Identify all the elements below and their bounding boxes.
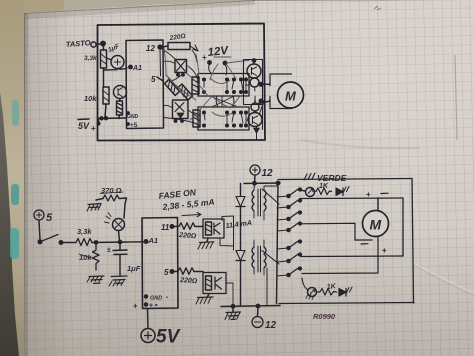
svg-text:220Ω: 220Ω — [178, 232, 197, 240]
svg-text:12: 12 — [265, 320, 277, 331]
svg-text:+: + — [202, 53, 207, 62]
svg-text:R0990: R0990 — [313, 312, 336, 321]
svg-text:GND: GND — [150, 296, 162, 302]
svg-text:+ •: + • — [149, 303, 158, 310]
svg-text:VERDE: VERDE — [317, 173, 347, 183]
svg-text:5V: 5V — [78, 121, 90, 131]
svg-text:A1: A1 — [132, 65, 142, 72]
svg-text:+: + — [91, 124, 96, 133]
svg-text:12: 12 — [262, 168, 274, 179]
svg-text:1μF: 1μF — [127, 264, 141, 273]
svg-text:5V: 5V — [156, 327, 181, 348]
svg-text:M: M — [285, 89, 297, 104]
svg-text:370 Ω: 370 Ω — [101, 186, 122, 195]
svg-text:3,3k: 3,3k — [84, 55, 97, 62]
svg-text:GND: GND — [127, 114, 139, 120]
svg-text:+5: +5 — [130, 122, 138, 129]
svg-text:+: + — [382, 246, 387, 255]
svg-text:+: + — [133, 302, 138, 311]
svg-text:±: ± — [107, 247, 111, 254]
svg-text:3,3k: 3,3k — [77, 227, 92, 236]
svg-text:5: 5 — [46, 212, 53, 224]
svg-text:220Ω: 220Ω — [179, 277, 198, 285]
svg-text:TASTO: TASTO — [66, 38, 91, 49]
svg-text:5: 5 — [164, 268, 169, 277]
svg-text:10k: 10k — [84, 94, 97, 103]
svg-text:A1: A1 — [148, 236, 159, 245]
svg-text:12: 12 — [146, 44, 155, 53]
svg-text:+: + — [366, 190, 371, 199]
svg-text:11: 11 — [161, 223, 170, 232]
svg-text:•: • — [166, 295, 168, 301]
svg-text:1K: 1K — [326, 283, 337, 291]
svg-text:5: 5 — [151, 75, 156, 84]
svg-text:M: M — [370, 217, 382, 233]
